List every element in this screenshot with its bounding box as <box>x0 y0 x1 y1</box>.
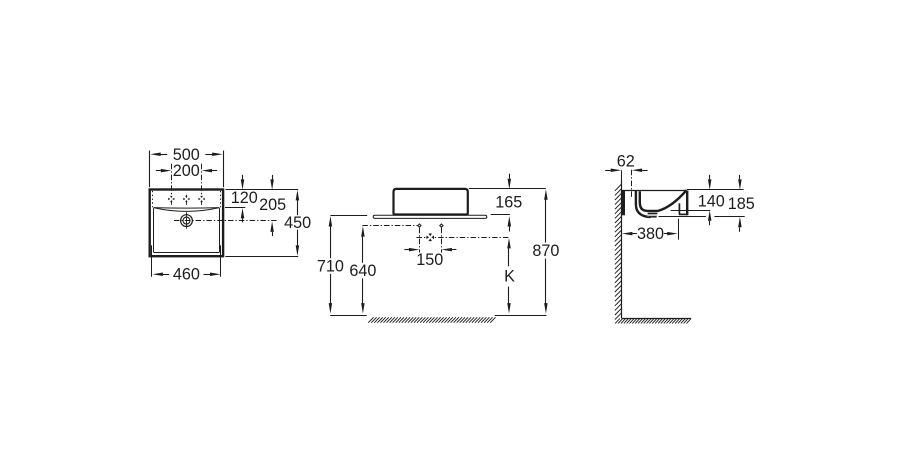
svg-text:K: K <box>504 268 515 286</box>
svg-text:870: 870 <box>532 242 559 260</box>
svg-text:200: 200 <box>173 162 200 180</box>
svg-text:120: 120 <box>231 189 258 207</box>
svg-text:460: 460 <box>173 266 200 284</box>
svg-text:185: 185 <box>728 195 755 213</box>
svg-text:450: 450 <box>284 214 311 232</box>
svg-text:710: 710 <box>317 258 344 276</box>
svg-text:640: 640 <box>349 262 376 280</box>
svg-text:205: 205 <box>259 196 286 214</box>
svg-text:140: 140 <box>698 192 725 210</box>
svg-text:500: 500 <box>173 146 200 164</box>
svg-text:150: 150 <box>416 251 443 269</box>
svg-text:165: 165 <box>495 194 522 212</box>
svg-text:380: 380 <box>637 225 664 243</box>
svg-text:62: 62 <box>617 152 635 170</box>
